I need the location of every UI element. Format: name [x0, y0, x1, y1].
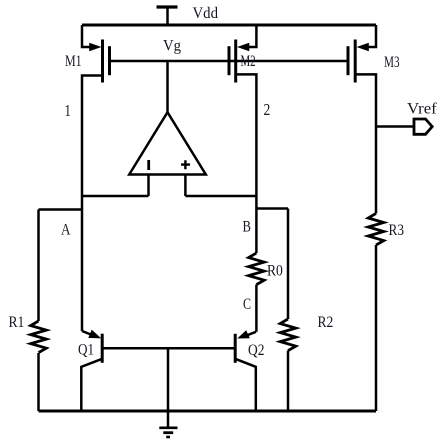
svg-text:C: C [243, 295, 251, 313]
svg-text:Q1: Q1 [78, 341, 94, 358]
svg-text:R1: R1 [9, 314, 25, 331]
svg-text:R3: R3 [389, 222, 404, 239]
svg-text:B: B [243, 218, 251, 236]
svg-text:Vref: Vref [407, 99, 437, 118]
svg-text:R0: R0 [267, 263, 283, 280]
svg-text:Vg: Vg [163, 37, 181, 55]
svg-text:Vdd: Vdd [193, 5, 219, 23]
svg-text:M3: M3 [384, 53, 400, 70]
svg-text:M1: M1 [65, 52, 82, 70]
svg-text:2: 2 [264, 101, 271, 120]
svg-text:M2: M2 [241, 52, 256, 70]
svg-text:A: A [61, 221, 71, 238]
svg-text:1: 1 [65, 102, 71, 120]
svg-text:Q2: Q2 [248, 342, 264, 359]
svg-text:R2: R2 [318, 314, 334, 331]
